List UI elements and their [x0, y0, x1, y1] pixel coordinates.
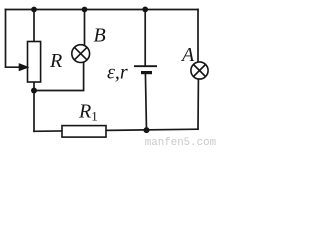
node junction bottom (battery) — [144, 127, 150, 133]
wire right side down to lamp A — [197, 10, 199, 63]
wire left side down to wiper — [6, 10, 21, 68]
svg-text:R: R — [49, 50, 62, 72]
svg-text:B: B — [94, 25, 106, 47]
wire top dot to lamp B top — [84, 10, 86, 46]
node junction top-battery — [142, 6, 148, 12]
node junction top-middle — [82, 7, 88, 13]
wire node down to bottom rail — [33, 91, 35, 132]
resistor R1 body — [62, 126, 106, 138]
node junction left (below R) — [31, 88, 37, 94]
svg-text:manfen5.com: manfen5.com — [145, 137, 216, 148]
svg-text:ε,r: ε,r — [107, 62, 128, 84]
battery long plate — [134, 65, 157, 67]
node junction top-left — [31, 7, 37, 13]
rheostat wiper arrow — [20, 64, 28, 70]
wire node to lamp B bottom — [34, 62, 84, 90]
rheostat R body — [28, 42, 41, 83]
wire battery to bottom node — [145, 73, 146, 130]
wire rheostat R bottom to node — [33, 82, 35, 91]
wire bottom rail — [34, 129, 198, 131]
wire top rail — [6, 9, 199, 11]
svg-text:A: A — [180, 44, 195, 66]
lamp A — [191, 62, 208, 79]
wire top dot to rheostat R — [33, 10, 35, 42]
battery short plate — [141, 71, 152, 74]
wire lamp A bottom to bottom rail — [197, 79, 199, 129]
lamp B — [72, 45, 90, 63]
wire top dot to battery — [144, 10, 146, 67]
